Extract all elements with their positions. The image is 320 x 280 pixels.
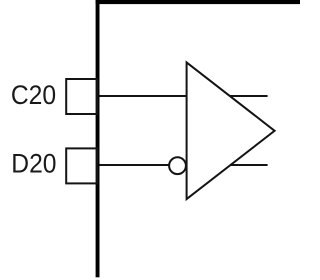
svg-text:C20: C20: [11, 80, 56, 110]
svg-text:D20: D20: [11, 148, 56, 178]
